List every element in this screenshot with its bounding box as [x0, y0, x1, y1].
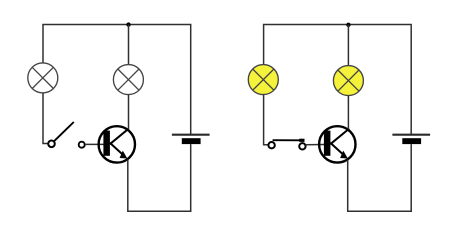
lamp L2 (off) — [113, 65, 143, 95]
wire switch to transistor base — [85, 143, 104, 145]
node junction dot (left circuit top) — [126, 22, 130, 26]
lamp L1 (off) — [28, 63, 58, 93]
battery B2 — [392, 135, 430, 144]
wire lamp L4 to transistor collector — [347, 96, 349, 129]
wire battery bottom lead — [410, 144, 412, 212]
lamp L4 (lit) — [333, 66, 363, 96]
wire top rail (right circuit) — [263, 24, 412, 26]
battery B1 — [172, 135, 210, 144]
wire lamp L1 to switch — [43, 93, 48, 143]
switch SW2 (closed) — [268, 139, 305, 150]
wire switch to transistor base — [306, 144, 325, 146]
wire battery top lead — [190, 25, 192, 135]
wire battery bottom lead — [190, 144, 192, 212]
wire left rail to lamp L3 — [263, 25, 265, 65]
switch SW1 (open) — [48, 122, 84, 148]
wire transistor emitter down — [347, 160, 349, 212]
wire battery top lead — [410, 25, 412, 135]
wire lamp L2 to transistor collector — [128, 95, 130, 129]
wire bottom rail (left circuit) — [127, 210, 191, 212]
wire bottom rail (right circuit) — [347, 210, 412, 212]
lamp L3 (lit) — [248, 65, 278, 95]
wire lamp L3 to switch — [264, 95, 268, 145]
wire junction to lamp L4 — [347, 25, 349, 66]
transistor Q1 — [99, 126, 135, 162]
transistor Q2 — [319, 126, 355, 162]
wire top rail (left circuit) — [42, 24, 191, 26]
wire left rail to lamp L1 — [42, 25, 44, 63]
node junction dot (right circuit top) — [346, 23, 350, 27]
wire junction to lamp L2 — [128, 25, 130, 65]
wire transistor emitter down — [127, 160, 129, 212]
